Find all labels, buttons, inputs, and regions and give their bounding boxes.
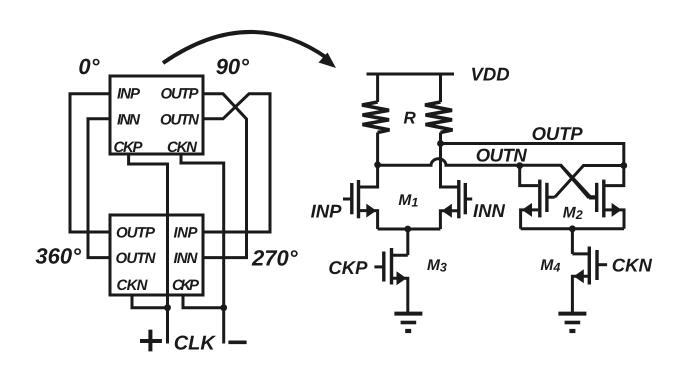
wire feedback inner: bottom OUTN to top INN [88, 119, 110, 258]
svg-text:OUTP: OUTP [532, 123, 584, 144]
wire bottom CKN stub to CLK+ node [132, 296, 168, 308]
svg-text:M2: M2 [563, 205, 583, 223]
node OUTN line with hop over OUTP drop [378, 159, 597, 197]
svg-text:OUTP: OUTP [161, 86, 200, 103]
wire top CKP down through bottom block to CLK+ [129, 156, 168, 344]
wire M1 tail rail [378, 228, 441, 231]
curved arrow from 0-deg latch to transistor schematic [163, 32, 336, 68]
wire tail to M3 drain [406, 229, 409, 255]
transistor M1 left (INP) [343, 163, 378, 229]
junction OUTN at left resistor [374, 161, 381, 168]
svg-text:INN: INN [174, 250, 199, 267]
svg-text:CLK: CLK [174, 333, 217, 355]
svg-text:CKN: CKN [167, 139, 198, 156]
svg-text:OUTN: OUTN [116, 250, 157, 267]
wire top OUTN crossing up then down to bottom INP [203, 94, 270, 232]
junction OUTP at M2 right drain [620, 162, 627, 169]
svg-text:INP: INP [117, 86, 141, 103]
junction CLK+ [164, 304, 171, 311]
wire cross-couple diagonal to M2 left gate [555, 166, 624, 198]
svg-text:0°: 0° [78, 54, 99, 79]
wire bottom CKP stub to CLK- node [183, 296, 224, 308]
CLK minus terminal [228, 340, 246, 344]
wire cross-couple diagonal to M2 right gate [561, 166, 589, 199]
wire feedback outer: bottom OUTP to top INP [70, 94, 110, 232]
junction M1 tail [404, 226, 411, 233]
transistor M1 right (INN) [440, 144, 472, 230]
svg-text:VDD: VDD [471, 64, 510, 85]
svg-text:M4: M4 [540, 257, 560, 275]
wire M2 tail rail [521, 227, 624, 230]
svg-text:90°: 90° [216, 54, 249, 79]
latch block top (0/90 deg) [110, 76, 203, 154]
wire top OUTP crossing down to bottom INN [203, 94, 247, 258]
ground M3 [394, 314, 422, 331]
svg-text:R: R [404, 109, 417, 128]
transistor M3 (tail, CKP) [374, 248, 407, 313]
svg-text:INN: INN [117, 112, 141, 129]
junction OUTP at right resistor [437, 140, 444, 147]
svg-text:CKP: CKP [114, 139, 144, 156]
VDD rail [367, 73, 455, 76]
svg-text:CKP: CKP [172, 277, 200, 294]
CLK plus terminal [140, 330, 162, 352]
svg-text:OUTP: OUTP [116, 225, 156, 242]
transistor M2 right (cross-coupled) [589, 163, 624, 229]
junction OUTN at M2 left drain [516, 162, 523, 169]
svg-text:CKP: CKP [328, 257, 368, 278]
node OUTP line [441, 144, 624, 166]
svg-text:INP: INP [311, 200, 343, 221]
wire tail to M4 drain [571, 229, 574, 254]
svg-text:CKN: CKN [612, 255, 653, 276]
junction M2 tail [569, 225, 576, 232]
resistor R left [362, 74, 390, 165]
ground M4 [558, 314, 586, 331]
svg-text:M1: M1 [398, 192, 418, 210]
transistor M2 left (cross-coupled) [520, 163, 555, 229]
svg-text:INP: INP [174, 225, 199, 242]
junction CLK- [220, 304, 227, 311]
svg-text:OUTN: OUTN [160, 112, 200, 129]
svg-text:INN: INN [473, 200, 506, 221]
resistor R right [425, 74, 453, 144]
wire top CKN down right side to CLK- [181, 156, 224, 344]
transistor M4 (tail, CKN) [572, 247, 607, 314]
latch block bottom (360/270 deg) [110, 215, 203, 295]
svg-text:270°: 270° [251, 246, 298, 271]
svg-text:360°: 360° [35, 244, 81, 269]
svg-text:M3: M3 [427, 257, 447, 275]
svg-text:CKN: CKN [117, 277, 149, 294]
